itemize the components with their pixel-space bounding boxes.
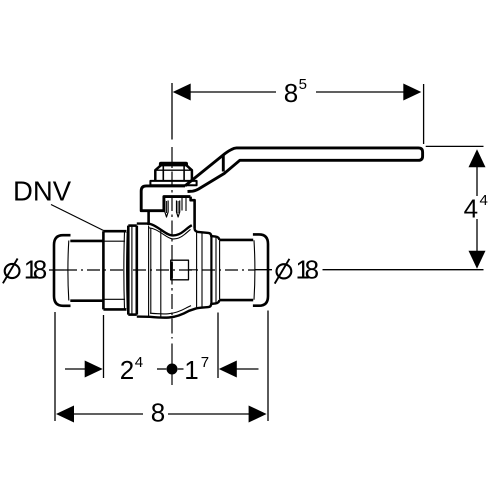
svg-text:4: 4	[480, 192, 488, 209]
label ø18 left	[3, 254, 47, 284]
stem hex nut	[155, 163, 192, 181]
dimension 2^4 line	[65, 368, 85, 370]
extension line handle top	[426, 145, 484, 147]
hex flat lines	[103, 241, 125, 299]
stem cap	[159, 162, 188, 167]
square press mark	[171, 260, 189, 280]
label ø18 right leader	[255, 269, 272, 271]
square mark right line	[189, 269, 197, 271]
right step edge vertical	[210, 236, 212, 304]
dimension 4^4 down arrowhead	[469, 251, 486, 269]
left union nut hex	[103, 231, 126, 309]
left press socket	[70, 241, 103, 301]
left bead-socket boundary	[67, 241, 70, 301]
right press socket	[219, 240, 253, 300]
left press bead	[54, 235, 71, 306]
square mark left edge bar	[171, 262, 173, 279]
nut face lines	[163, 164, 184, 181]
extension line bottom right-socket	[217, 313, 219, 379]
svg-text:7: 7	[201, 354, 209, 371]
stem nut washer	[150, 181, 196, 185]
stem flange left edge	[147, 211, 150, 225]
extension line bottom far-right	[267, 311, 269, 422]
left ring flange	[128, 226, 137, 315]
datum dot lines	[157, 368, 166, 370]
svg-text:8: 8	[305, 255, 319, 285]
handle bend face	[222, 155, 225, 171]
valve body top saddle	[137, 224, 192, 236]
body right bottom staircase	[197, 300, 220, 308]
dimension 8^5 line	[190, 91, 404, 93]
datum dot	[167, 364, 178, 375]
dimension 1^7 arrowhead	[219, 361, 237, 378]
svg-text:4: 4	[135, 354, 143, 371]
body bottom inner curve	[150, 306, 191, 314]
dimension 8 line	[74, 413, 249, 415]
svg-text:DNV: DNV	[13, 175, 72, 206]
extension line bottom far-left	[54, 312, 56, 421]
svg-text:2: 2	[120, 355, 134, 385]
extension line bottom left-socket	[103, 315, 105, 378]
handle bracket tab	[141, 186, 190, 211]
svg-text:8: 8	[33, 254, 47, 284]
centerline vertical	[171, 147, 173, 339]
right bead-socket boundary	[253, 240, 256, 299]
svg-text:8: 8	[151, 397, 165, 427]
valve body bottom profile	[137, 308, 197, 317]
extension line left (stem axis)	[171, 83, 173, 140]
svg-text:1: 1	[184, 355, 198, 385]
right press bead	[253, 234, 268, 305]
dimension 1^7 tail line	[237, 368, 259, 370]
stem collar face lines	[182, 198, 186, 211]
dimension 8^5 left arrowhead	[173, 84, 191, 101]
centerline horizontal	[64, 269, 255, 271]
dimension 4^4 up arrowhead	[469, 149, 486, 167]
body right top staircase	[195, 229, 220, 240]
stem splines	[165, 201, 180, 218]
barrel surface lines	[149, 226, 161, 317]
dimension 8 left arrowhead	[56, 406, 74, 423]
label ø18 left leader	[49, 269, 64, 271]
nut chamfer base line	[155, 169, 192, 171]
body top inner curve	[149, 228, 191, 239]
dimension 2^4 arrowhead	[85, 361, 103, 378]
svg-text:4: 4	[464, 194, 478, 224]
ring inner line	[131, 226, 133, 314]
svg-text:5: 5	[299, 76, 307, 93]
dimension 4^4 line	[476, 166, 478, 251]
stem collar right edge	[191, 197, 195, 229]
extension line right (handle end)	[423, 84, 425, 144]
svg-text:8: 8	[284, 78, 298, 108]
hex chamfer curves	[124, 232, 127, 310]
leader DNV	[51, 205, 104, 231]
dimension 8^5 right arrowhead	[403, 84, 421, 101]
dimension 8 right arrowhead	[249, 406, 267, 423]
label ø18 right	[275, 255, 319, 285]
handle lever	[185, 148, 423, 192]
right side surface lines	[197, 232, 220, 308]
